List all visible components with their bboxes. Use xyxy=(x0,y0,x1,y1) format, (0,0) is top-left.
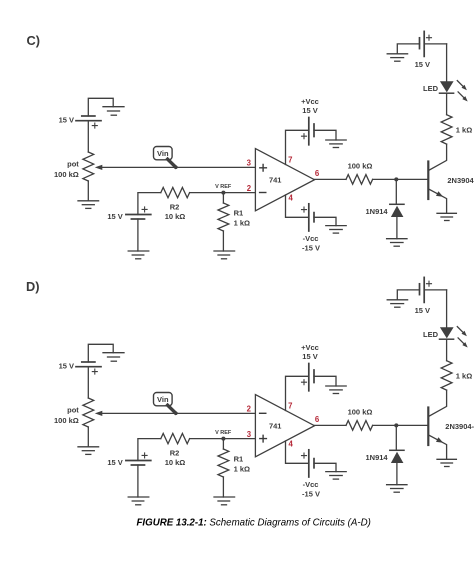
svg-text:2N3904: 2N3904 xyxy=(447,176,474,185)
svg-text:3: 3 xyxy=(247,159,252,168)
svg-text:2: 2 xyxy=(247,405,252,414)
svg-text:4: 4 xyxy=(289,194,294,203)
svg-text:FIGURE 13.2-1: Schematic Diagr: FIGURE 13.2-1: Schematic Diagrams of Cir… xyxy=(137,517,371,528)
svg-text:6: 6 xyxy=(315,169,320,178)
svg-text:4: 4 xyxy=(289,440,294,449)
svg-text:3: 3 xyxy=(247,430,252,439)
svg-text:D): D) xyxy=(26,279,40,294)
svg-text:7: 7 xyxy=(288,156,292,165)
svg-text:2: 2 xyxy=(247,184,252,193)
svg-text:6: 6 xyxy=(315,415,320,424)
svg-text:C): C) xyxy=(27,33,41,48)
svg-text:7: 7 xyxy=(288,402,292,411)
svg-text:2N3904-: 2N3904- xyxy=(445,422,474,431)
